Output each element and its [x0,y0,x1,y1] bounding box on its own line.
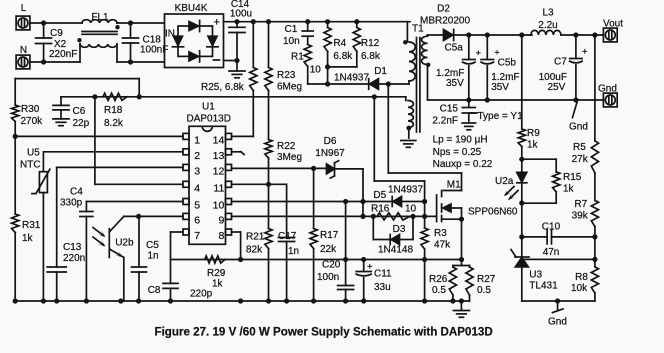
svg-text:Vout: Vout [603,19,623,30]
svg-text:10: 10 [310,65,322,76]
svg-text:C5: C5 [146,240,159,251]
svg-text:100n: 100n [317,272,339,283]
svg-text:R18: R18 [104,105,123,116]
svg-text:4: 4 [194,182,200,194]
svg-text:U2b: U2b [115,238,134,249]
svg-text:U3: U3 [529,270,542,281]
svg-text:R25, 6.8k: R25, 6.8k [201,82,245,93]
svg-text:C5b: C5b [498,58,517,69]
svg-text:+: + [367,262,373,273]
svg-text:270k: 270k [21,116,44,127]
svg-text:22p: 22p [73,118,90,129]
svg-text:11: 11 [213,182,224,194]
svg-text:R17: R17 [320,230,339,241]
svg-text:6Meg: 6Meg [277,82,302,93]
svg-text:R15: R15 [563,172,582,183]
svg-text:M1: M1 [447,180,461,191]
svg-text:R1: R1 [291,52,304,63]
svg-text:8: 8 [218,230,224,242]
svg-text:2.2nF: 2.2nF [432,116,458,127]
svg-text:Gnd: Gnd [598,84,617,95]
svg-text:5: 5 [194,200,200,212]
svg-text:C20: C20 [322,260,341,271]
svg-text:R22: R22 [277,141,296,152]
svg-text:D1: D1 [374,66,387,77]
svg-text:L: L [21,3,27,14]
svg-text:C10: C10 [542,222,561,233]
svg-text:MBR20200: MBR20200 [420,15,470,26]
svg-text:R30: R30 [21,104,40,115]
svg-text:R3: R3 [434,228,447,239]
svg-text:47k: 47k [434,240,451,251]
svg-text:35V: 35V [446,78,464,89]
svg-text:9: 9 [218,214,224,226]
svg-text:Nauxp = 0.22: Nauxp = 0.22 [433,159,493,170]
svg-text:R31: R31 [22,220,41,231]
svg-text:C13: C13 [63,242,82,253]
svg-text:R16: R16 [371,204,390,215]
svg-text:Gnd: Gnd [548,317,567,328]
svg-text:1N4937: 1N4937 [334,73,369,84]
svg-text:39k: 39k [572,211,589,222]
svg-text:47n: 47n [543,247,560,258]
svg-text:1N4937: 1N4937 [388,185,423,196]
svg-text:Type = Y1: Type = Y1 [478,111,524,122]
svg-text:C8: C8 [148,285,161,296]
svg-text:R23: R23 [277,70,296,81]
svg-text:C4: C4 [70,187,83,198]
svg-text:R9: R9 [527,128,540,139]
svg-text:R8: R8 [575,272,588,283]
svg-text:D6: D6 [324,136,337,147]
svg-text:SPP06N60: SPP06N60 [468,207,518,218]
svg-text:82k: 82k [246,245,263,256]
svg-text:1n: 1n [148,251,159,262]
svg-text:R12: R12 [361,38,380,49]
svg-text:N: N [20,45,27,56]
svg-text:NTC: NTC [20,160,41,171]
svg-text:10k: 10k [571,283,588,294]
svg-text:2.2u: 2.2u [538,20,557,31]
svg-text:R27: R27 [477,274,496,285]
svg-text:R4: R4 [333,38,346,49]
svg-text:35V: 35V [491,82,509,93]
svg-text:C15: C15 [440,104,459,115]
svg-text:27k: 27k [572,154,589,165]
svg-text:1n: 1n [288,246,299,257]
svg-text:R21: R21 [246,232,265,243]
svg-text:22k: 22k [320,244,337,255]
svg-text:3: 3 [194,165,200,177]
svg-text:25V: 25V [548,82,566,93]
svg-text:220n: 220n [63,253,85,264]
svg-text:100u: 100u [230,9,252,20]
svg-text:Figure 27. 19 V /60 W Power Su: Figure 27. 19 V /60 W Power Supply Schem… [155,326,493,339]
svg-text:220nF: 220nF [49,49,77,60]
svg-text:Gnd: Gnd [569,122,588,133]
svg-text:C11: C11 [374,269,392,280]
svg-text:R7: R7 [574,199,587,210]
svg-text:L3: L3 [542,7,554,18]
svg-text:+: + [582,47,588,58]
svg-text:U5: U5 [27,148,40,159]
svg-text:10: 10 [405,204,417,215]
svg-text:0.5: 0.5 [477,285,491,296]
svg-text:6.8k: 6.8k [361,51,381,62]
svg-text:1k: 1k [563,184,575,195]
svg-text:Nps = 0.25: Nps = 0.25 [433,147,482,158]
svg-text:C17: C17 [278,231,297,242]
svg-text:+: + [214,17,220,29]
svg-text:12: 12 [213,165,225,177]
svg-text:C5a: C5a [445,43,464,54]
svg-text:1k: 1k [527,140,539,151]
svg-text:330p: 330p [60,198,83,209]
svg-text:U2a: U2a [495,176,514,187]
svg-text:Lp = 190 µH: Lp = 190 µH [433,135,488,146]
svg-text:8.2k: 8.2k [104,118,124,129]
svg-text:TL431: TL431 [529,281,558,292]
svg-text:KBU4K: KBU4K [175,3,208,14]
svg-text:R5: R5 [573,142,586,153]
svg-text:1k: 1k [22,233,34,244]
svg-text:C7: C7 [554,57,567,68]
svg-text:13: 13 [213,150,225,162]
svg-text:C1: C1 [285,24,298,35]
svg-text:D3: D3 [393,224,406,235]
svg-text:220p: 220p [190,289,213,300]
svg-text:U1: U1 [202,102,215,113]
svg-text:1N967: 1N967 [315,148,345,159]
svg-text:10: 10 [213,200,225,212]
svg-text:C6: C6 [73,106,86,117]
svg-text:7: 7 [194,230,200,242]
svg-text:33u: 33u [374,282,391,293]
svg-text:14: 14 [213,134,225,146]
svg-text:6: 6 [194,214,200,226]
svg-text:6.8k: 6.8k [333,51,353,62]
svg-text:R29: R29 [207,268,226,279]
svg-text:3Meg: 3Meg [277,152,302,163]
svg-text:D5: D5 [373,190,386,201]
svg-text:1: 1 [194,134,200,146]
svg-text:2: 2 [194,150,200,162]
svg-text:+: + [476,48,482,59]
svg-text:C9: C9 [50,28,63,39]
svg-text:R26: R26 [429,274,448,285]
svg-text:D2: D2 [437,3,450,14]
svg-text:0.5: 0.5 [432,285,446,296]
svg-text:10n: 10n [283,36,300,47]
svg-text:1N4148: 1N4148 [378,245,413,256]
svg-text:1k: 1k [212,279,224,290]
svg-text:DAP013D: DAP013D [187,114,231,125]
